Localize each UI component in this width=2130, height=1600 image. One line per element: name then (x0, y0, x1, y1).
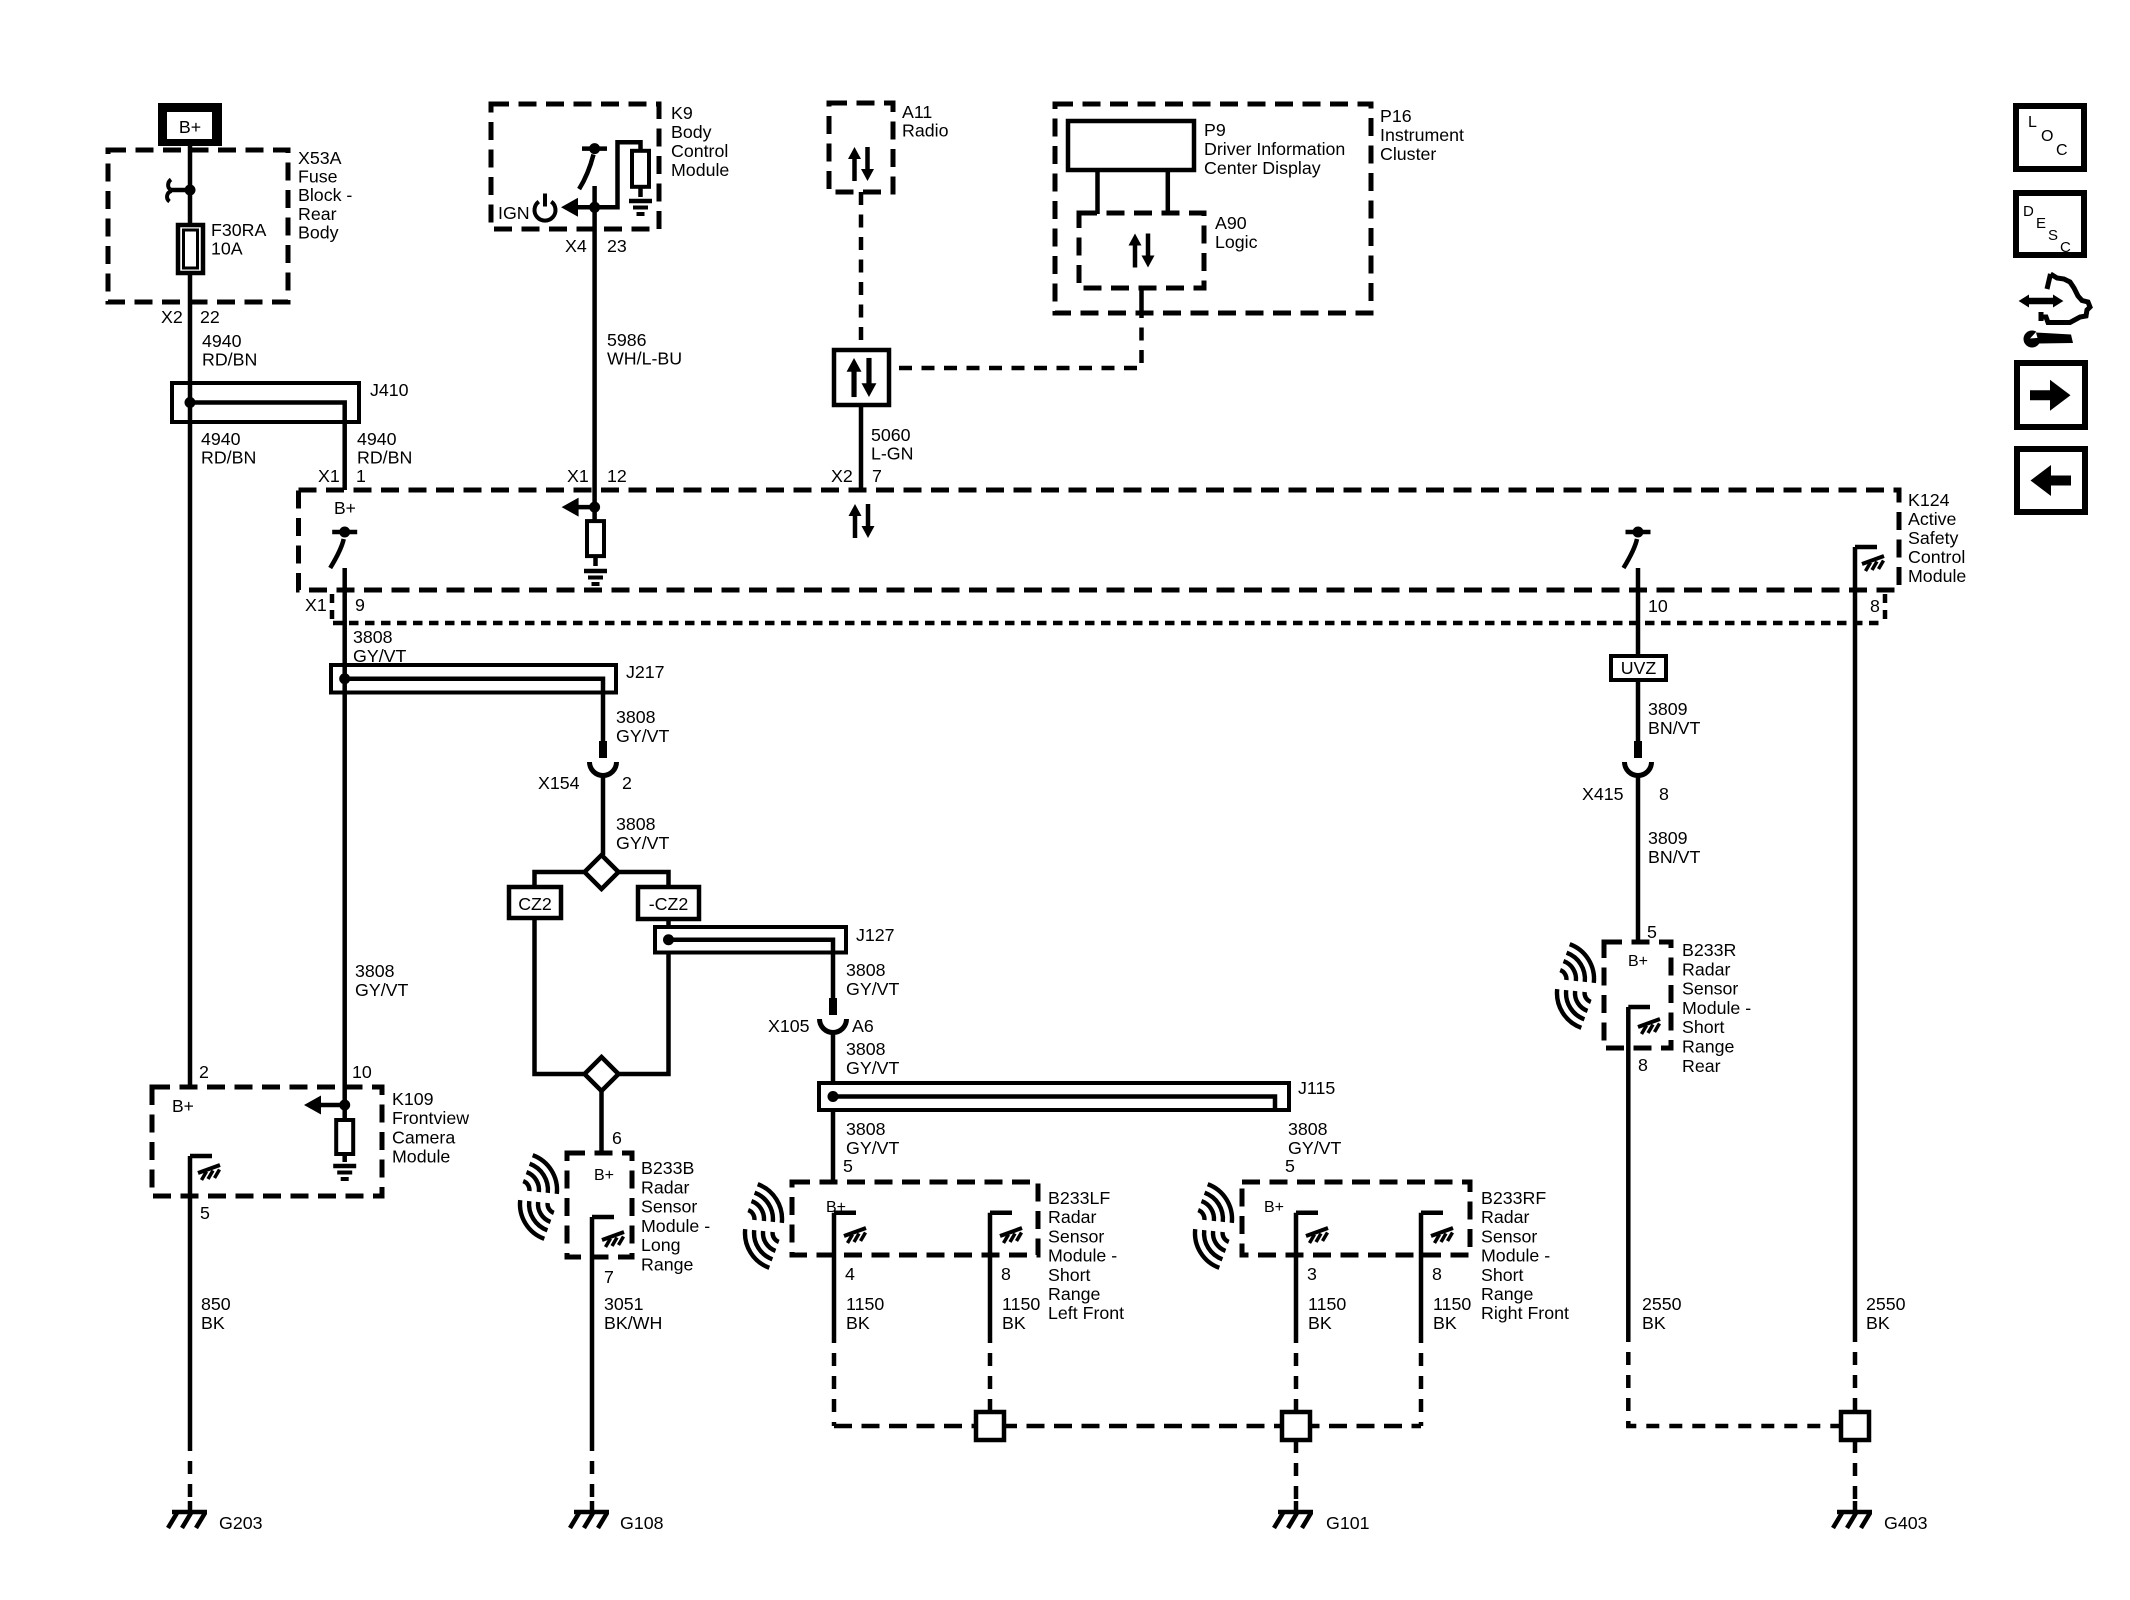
svg-text:B+: B+ (1628, 953, 1648, 970)
svg-text:L: L (2028, 114, 2037, 131)
svg-text:Control: Control (1908, 547, 1965, 567)
svg-text:Cluster: Cluster (1380, 144, 1436, 164)
svg-text:Range: Range (1048, 1284, 1101, 1304)
svg-text:10: 10 (352, 1062, 372, 1082)
svg-text:Range: Range (1682, 1037, 1735, 1057)
svg-text:Radar: Radar (641, 1177, 690, 1197)
svg-text:IGN: IGN (498, 203, 530, 223)
svg-text:3808: 3808 (616, 707, 656, 727)
svg-text:5060: 5060 (871, 425, 911, 445)
svg-text:B+: B+ (594, 1167, 614, 1184)
svg-text:K124: K124 (1908, 490, 1950, 510)
svg-text:Radar: Radar (1481, 1207, 1530, 1227)
svg-text:D: D (2023, 203, 2034, 220)
svg-text:4940: 4940 (202, 331, 242, 351)
svg-text:BK: BK (846, 1313, 870, 1333)
svg-text:Body: Body (671, 122, 712, 142)
svg-text:G403: G403 (1884, 1513, 1928, 1533)
svg-text:X1: X1 (567, 466, 589, 486)
svg-text:BK: BK (1002, 1313, 1026, 1333)
svg-text:1150: 1150 (1002, 1294, 1040, 1314)
svg-text:10A: 10A (211, 239, 243, 259)
svg-text:X1: X1 (318, 466, 340, 486)
svg-text:X415: X415 (1582, 784, 1624, 804)
svg-text:L-GN: L-GN (871, 444, 913, 464)
svg-text:BK/WH: BK/WH (604, 1313, 662, 1333)
svg-text:E: E (2036, 215, 2046, 232)
svg-text:B233LF: B233LF (1048, 1188, 1110, 1208)
svg-text:2: 2 (622, 773, 632, 793)
svg-text:X53A: X53A (298, 148, 342, 168)
svg-text:3: 3 (1307, 1264, 1317, 1284)
svg-text:4940: 4940 (357, 429, 397, 449)
svg-text:3808: 3808 (355, 961, 395, 981)
svg-text:Short: Short (1481, 1265, 1524, 1285)
svg-text:Frontview: Frontview (392, 1108, 469, 1128)
svg-text:Driver Information: Driver Information (1204, 139, 1345, 159)
svg-text:3808: 3808 (353, 627, 393, 647)
svg-text:Sensor: Sensor (641, 1197, 697, 1217)
svg-text:2550: 2550 (1866, 1294, 1906, 1314)
svg-text:B+: B+ (172, 1096, 194, 1116)
svg-text:BK: BK (1642, 1313, 1666, 1333)
svg-text:B+: B+ (334, 498, 356, 518)
svg-text:Radio: Radio (902, 121, 949, 141)
svg-text:1: 1 (356, 466, 366, 486)
svg-text:Instrument: Instrument (1380, 125, 1464, 145)
svg-text:G108: G108 (620, 1513, 664, 1533)
svg-text:BK: BK (1308, 1313, 1332, 1333)
svg-text:GY/VT: GY/VT (616, 833, 669, 853)
svg-text:Control: Control (671, 141, 728, 161)
svg-text:B+: B+ (179, 117, 201, 137)
svg-text:5986: 5986 (607, 330, 647, 350)
svg-text:8: 8 (1870, 596, 1880, 616)
svg-text:Module -: Module - (1048, 1246, 1117, 1266)
svg-text:23: 23 (607, 236, 627, 256)
svg-text:Right Front: Right Front (1481, 1303, 1569, 1323)
svg-text:Module: Module (1908, 566, 1966, 586)
svg-text:12: 12 (607, 466, 627, 486)
svg-text:Module -: Module - (641, 1216, 710, 1236)
svg-text:X4: X4 (565, 236, 587, 256)
svg-text:F30RA: F30RA (211, 220, 266, 240)
svg-text:BK: BK (201, 1313, 225, 1333)
svg-text:2550: 2550 (1642, 1294, 1682, 1314)
svg-text:Long: Long (641, 1235, 681, 1255)
svg-text:J127: J127 (856, 925, 895, 945)
svg-text:Range: Range (1481, 1284, 1534, 1304)
svg-text:G101: G101 (1326, 1513, 1370, 1533)
svg-text:10: 10 (1648, 596, 1668, 616)
svg-text:3808: 3808 (616, 814, 656, 834)
svg-text:3809: 3809 (1648, 699, 1688, 719)
svg-text:Module: Module (671, 160, 729, 180)
svg-text:-CZ2: -CZ2 (649, 894, 689, 914)
svg-text:K9: K9 (671, 103, 693, 123)
svg-text:X2: X2 (831, 466, 853, 486)
svg-text:X154: X154 (538, 773, 580, 793)
svg-text:1150: 1150 (1308, 1294, 1346, 1314)
svg-text:J115: J115 (1298, 1078, 1335, 1098)
svg-text:8: 8 (1659, 784, 1669, 804)
svg-text:7: 7 (604, 1267, 614, 1287)
svg-text:Logic: Logic (1215, 232, 1258, 252)
svg-text:A6: A6 (852, 1016, 874, 1036)
svg-text:K109: K109 (392, 1089, 434, 1109)
svg-text:BK: BK (1866, 1313, 1890, 1333)
svg-text:GY/VT: GY/VT (846, 1138, 899, 1158)
svg-text:A11: A11 (902, 102, 932, 122)
svg-text:A90: A90 (1215, 213, 1247, 233)
svg-text:Rear: Rear (298, 204, 337, 224)
svg-text:B233RF: B233RF (1481, 1188, 1546, 1208)
svg-text:8: 8 (1001, 1264, 1011, 1284)
svg-text:3808: 3808 (846, 1119, 886, 1139)
svg-text:8: 8 (1432, 1264, 1442, 1284)
svg-text:Radar: Radar (1048, 1207, 1097, 1227)
svg-text:X105: X105 (768, 1016, 810, 1036)
svg-text:Camera: Camera (392, 1127, 455, 1147)
svg-text:WH/L-BU: WH/L-BU (607, 349, 682, 369)
svg-text:Range: Range (641, 1255, 694, 1275)
svg-text:GY/VT: GY/VT (846, 1058, 899, 1078)
svg-text:P16: P16 (1380, 106, 1412, 126)
svg-text:9: 9 (355, 595, 365, 615)
svg-text:3809: 3809 (1648, 828, 1688, 848)
svg-text:G203: G203 (219, 1513, 263, 1533)
svg-text:CZ2: CZ2 (518, 894, 552, 914)
svg-text:3808: 3808 (846, 1039, 886, 1059)
svg-text:Module -: Module - (1481, 1246, 1550, 1266)
svg-text:Sensor: Sensor (1048, 1226, 1104, 1246)
svg-text:GY/VT: GY/VT (616, 726, 669, 746)
svg-text:BN/VT: BN/VT (1648, 718, 1701, 738)
svg-text:B233B: B233B (641, 1158, 694, 1178)
svg-text:O: O (2041, 128, 2053, 145)
svg-text:Safety: Safety (1908, 528, 1959, 548)
svg-text:BN/VT: BN/VT (1648, 847, 1701, 867)
svg-text:B+: B+ (1264, 1199, 1284, 1216)
svg-text:3808: 3808 (1288, 1119, 1328, 1139)
svg-text:1150: 1150 (846, 1294, 884, 1314)
svg-text:3051: 3051 (604, 1294, 644, 1314)
svg-text:850: 850 (201, 1294, 231, 1314)
svg-text:Fuse: Fuse (298, 167, 338, 187)
svg-text:GY/VT: GY/VT (355, 980, 408, 1000)
svg-text:Center Display: Center Display (1204, 158, 1321, 178)
svg-text:B233R: B233R (1682, 940, 1737, 960)
svg-text:RD/BN: RD/BN (201, 448, 256, 468)
svg-text:1150: 1150 (1433, 1294, 1471, 1314)
svg-text:Sensor: Sensor (1481, 1226, 1537, 1246)
svg-text:X2: X2 (161, 307, 183, 327)
svg-text:Rear: Rear (1682, 1056, 1721, 1076)
svg-text:C: C (2056, 142, 2068, 159)
svg-text:Body: Body (298, 222, 339, 242)
svg-text:4: 4 (845, 1264, 855, 1284)
svg-text:Short: Short (1682, 1017, 1725, 1037)
svg-text:7: 7 (872, 466, 882, 486)
svg-text:4940: 4940 (201, 429, 241, 449)
svg-text:GY/VT: GY/VT (1288, 1138, 1341, 1158)
svg-text:5: 5 (200, 1203, 210, 1223)
svg-text:J410: J410 (370, 380, 409, 400)
svg-text:22: 22 (200, 307, 220, 327)
svg-text:2: 2 (199, 1062, 209, 1082)
svg-text:UVZ: UVZ (1621, 658, 1657, 678)
svg-text:P9: P9 (1204, 120, 1226, 140)
svg-text:3808: 3808 (846, 960, 886, 980)
svg-text:GY/VT: GY/VT (846, 979, 899, 999)
svg-text:S: S (2048, 227, 2058, 244)
svg-text:RD/BN: RD/BN (202, 350, 257, 370)
svg-text:5: 5 (843, 1156, 853, 1176)
svg-text:X1: X1 (305, 595, 327, 615)
svg-text:BK: BK (1433, 1313, 1457, 1333)
svg-text:Short: Short (1048, 1265, 1091, 1285)
svg-text:J217: J217 (626, 662, 665, 682)
svg-text:C: C (2060, 239, 2071, 256)
svg-text:8: 8 (1638, 1055, 1648, 1075)
svg-text:Block -: Block - (298, 185, 352, 205)
svg-text:5: 5 (1285, 1156, 1295, 1176)
svg-text:Module -: Module - (1682, 998, 1751, 1018)
svg-text:Module: Module (392, 1147, 450, 1167)
svg-text:RD/BN: RD/BN (357, 448, 412, 468)
svg-text:Active: Active (1908, 509, 1957, 529)
svg-text:Sensor: Sensor (1682, 979, 1738, 999)
svg-text:Radar: Radar (1682, 959, 1731, 979)
svg-text:6: 6 (612, 1128, 622, 1148)
svg-text:Left Front: Left Front (1048, 1303, 1124, 1323)
svg-text:5: 5 (1647, 922, 1657, 942)
